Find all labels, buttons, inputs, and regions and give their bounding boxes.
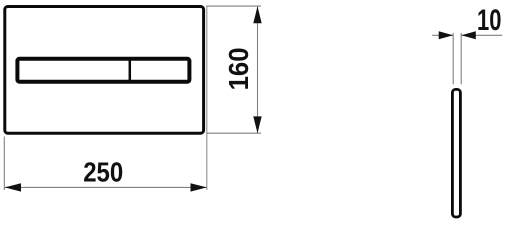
svg-text:160: 160 — [223, 47, 254, 90]
front view: flush button — [17, 59, 189, 82]
dim 160: top arrow — [253, 6, 261, 23]
front view: plate outline — [5, 7, 204, 134]
dim 160: top extension line — [206, 5, 261, 7]
dim 10: right extension line — [460, 33, 462, 84]
dim 160: bottom arrow — [253, 116, 261, 133]
dim 250: right arrow — [191, 183, 207, 191]
dim 10: right arrow — [461, 31, 476, 39]
front view: button divider — [129, 59, 132, 82]
dim 250: left arrow — [5, 183, 21, 191]
dim 10: right tail line — [461, 34, 502, 36]
dim 10: left tail line — [432, 34, 453, 36]
svg-text:250: 250 — [83, 155, 123, 187]
svg-text:10: 10 — [477, 5, 501, 37]
dim 250: right extension line — [206, 6, 208, 190]
dim 10: left extension line — [452, 33, 454, 84]
dim 160: bottom extension line — [207, 132, 261, 134]
dim 250: dimension line — [5, 186, 207, 188]
dim 250: left extension line — [3, 137, 5, 191]
dim 160: dimension line — [257, 7, 259, 134]
side view: plate profile — [452, 89, 460, 217]
dim 10: left arrow — [439, 31, 454, 39]
